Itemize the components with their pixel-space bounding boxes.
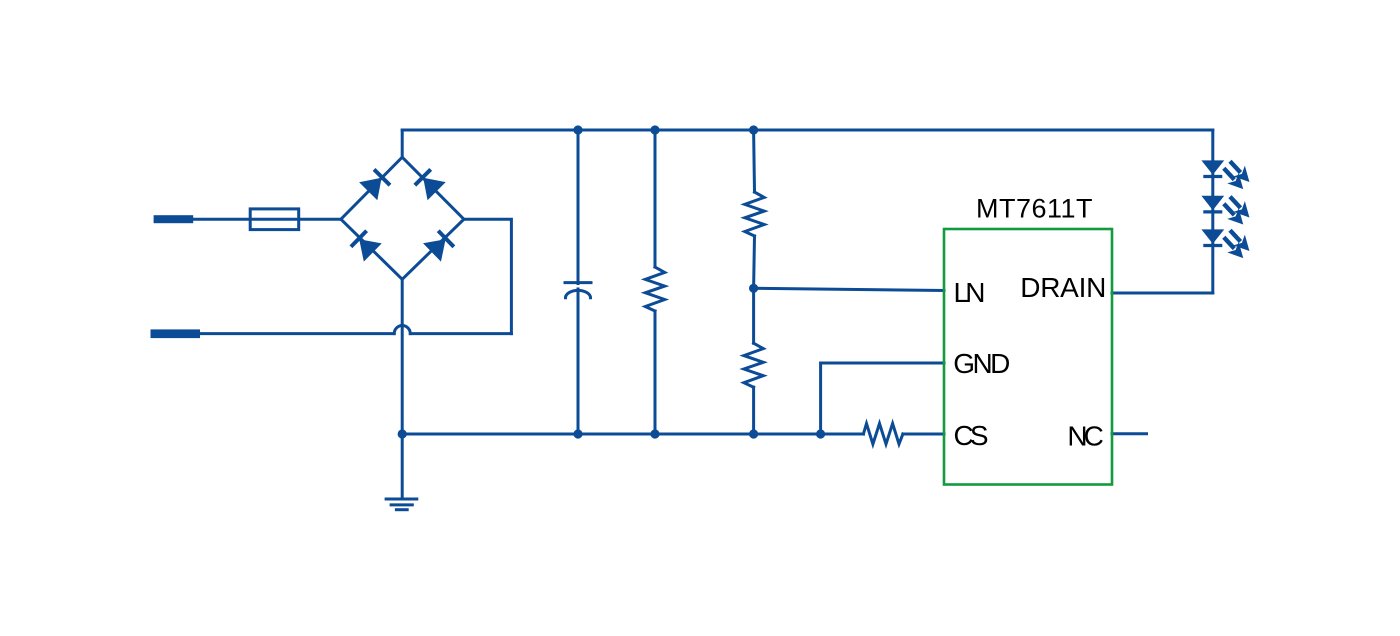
resistor R4 (CS) zigzag xyxy=(863,424,903,445)
wire: bottom input toward bridge (left part, up to crossing hop) xyxy=(200,332,394,335)
junction node dots xyxy=(398,125,826,438)
wire: top input to bridge left vertex (through fuse) xyxy=(193,218,341,221)
node: divider mid / LN xyxy=(749,284,758,293)
wire: R4 to CS pin xyxy=(903,433,944,436)
wire: hop to right-side vertical xyxy=(410,332,511,335)
wire hop over vertical wire xyxy=(394,326,410,334)
resistor R2 bottom lead xyxy=(752,236,756,288)
wire: bridge bottom vertex down to ground rail xyxy=(401,279,404,434)
terminal L (top input) xyxy=(154,215,194,223)
node: top rail / C1 xyxy=(573,125,582,134)
wire: NC pin stub xyxy=(1112,432,1147,435)
LED D6 xyxy=(1201,191,1255,230)
capacitor C1 top lead xyxy=(577,130,580,284)
node: top rail / R2 xyxy=(749,125,758,134)
svg-text:MT7611T: MT7611T xyxy=(976,193,1093,223)
node: ground rail / GND wire xyxy=(816,429,825,438)
resistor R1 bottom lead xyxy=(654,311,657,434)
resistor R3 top lead xyxy=(752,288,755,343)
IC U1 MT7611T box xyxy=(944,229,1112,485)
capacitor C1 bottom lead xyxy=(577,289,580,434)
resistor R1 zigzag xyxy=(645,267,664,311)
LED D7 xyxy=(1201,225,1255,264)
wire: top rail xyxy=(402,129,1213,132)
capacitor C1 plates xyxy=(565,281,591,284)
fuse F1 xyxy=(250,209,299,230)
svg-text:DRAIN: DRAIN xyxy=(1020,272,1106,303)
diode D4 (bridge bottom-right arm) xyxy=(423,230,455,262)
diode D1 (bridge top-left arm) xyxy=(359,168,391,200)
wire: divider node to LN pin xyxy=(754,288,944,290)
resistor R2 top lead xyxy=(752,130,756,192)
resistor R3 bottom lead xyxy=(752,387,755,434)
node: ground rail / C1 xyxy=(573,429,582,438)
terminal N (bottom input) xyxy=(151,329,201,338)
LED D5 xyxy=(1201,156,1255,195)
diode D2 (bridge top-right arm) xyxy=(414,168,446,200)
wire: ground stem xyxy=(401,434,404,499)
resistor R2 zigzag xyxy=(745,192,764,236)
wire: bridge top vertex to top rail xyxy=(401,130,404,157)
node: top rail / R1 xyxy=(650,125,659,134)
node: ground rail / R3 xyxy=(749,429,758,438)
diode D3 (bridge bottom-left arm) xyxy=(350,230,382,262)
svg-text:CS: CS xyxy=(954,420,989,451)
svg-text:GND: GND xyxy=(953,348,1010,379)
wire: LED column xyxy=(1211,130,1214,293)
wire: GND pin to ground rail xyxy=(821,363,944,434)
wire: bottom ground rail xyxy=(402,433,863,436)
svg-text:LN: LN xyxy=(954,277,986,308)
ground symbol xyxy=(386,499,417,510)
resistor R1 top lead xyxy=(654,130,657,267)
wire: right vertical from bridge right vertex xyxy=(464,219,512,333)
resistor R3 zigzag xyxy=(744,343,763,387)
node: ground rail / R1 xyxy=(650,429,659,438)
bridge rectifier BR1 diamond outline xyxy=(341,157,464,279)
node: ground rail / bridge xyxy=(398,429,407,438)
svg-text:NC: NC xyxy=(1067,421,1104,452)
wire: DRAIN pin to LED string xyxy=(1112,292,1213,295)
